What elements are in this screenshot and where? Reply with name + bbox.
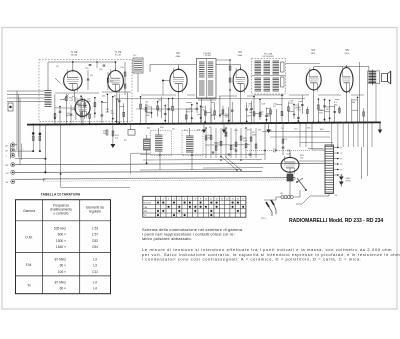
svg-text:C52: C52 <box>92 239 98 243</box>
svg-text:15K: 15K <box>252 134 256 136</box>
svg-text:60 »: 60 » <box>60 287 67 291</box>
svg-text:L4: L4 <box>93 287 97 291</box>
svg-text:1640 »: 1640 » <box>56 245 66 249</box>
svg-text:V2: V2 <box>340 153 342 155</box>
svg-text:87 MHz: 87 MHz <box>55 258 67 262</box>
svg-text:1M: 1M <box>258 130 261 132</box>
svg-text:6BA6: 6BA6 <box>238 54 243 57</box>
svg-text:T42: T42 <box>133 55 136 57</box>
svg-text:C54: C54 <box>92 245 98 249</box>
svg-text:1M: 1M <box>224 135 227 137</box>
svg-text:90 »: 90 » <box>60 264 67 268</box>
svg-text:L3: L3 <box>93 264 97 268</box>
svg-text:½ V1: ½ V1 <box>115 50 122 54</box>
svg-text:1M: 1M <box>103 133 106 135</box>
svg-text:FTR 60n: FTR 60n <box>214 143 221 145</box>
svg-text:O.M.: O.M. <box>25 236 32 240</box>
svg-text:10n: 10n <box>111 113 114 115</box>
svg-text:C11: C11 <box>92 270 98 274</box>
svg-text:RADIOMARELLI Modd. RD 233 -: RADIOMARELLI Modd. RD 233 - RD 234 <box>289 218 383 224</box>
svg-text:OM: OM <box>6 173 9 175</box>
svg-text:535 kHz: 535 kHz <box>54 227 66 231</box>
svg-text:L 57: L 57 <box>92 233 98 237</box>
svg-text:V4: V4 <box>311 48 315 52</box>
svg-text:Tv: Tv <box>27 284 31 288</box>
svg-text:o controllo: o controllo <box>53 212 68 216</box>
svg-text:FM: FM <box>144 211 147 213</box>
svg-text:lativo pulsante abbassato.: lativo pulsante abbassato. <box>142 236 192 241</box>
svg-text:TABELLA DI TARATURA: TABELLA DI TARATURA <box>41 192 81 196</box>
svg-text:L 53: L 53 <box>92 227 98 231</box>
svg-text:V5: V5 <box>340 170 342 172</box>
svg-text:DISCRIMINAT.: DISCRIMINAT. <box>262 55 274 58</box>
svg-text:V3: V3 <box>340 159 342 161</box>
svg-text:TERM.: TERM. <box>346 180 352 182</box>
svg-text:I° MF AM: I° MF AM <box>203 54 211 57</box>
svg-text:6CA4: 6CA4 <box>287 153 292 156</box>
svg-text:V4: V4 <box>340 164 342 166</box>
svg-text:i condensatori sono così contr: i condensatori sono così contrassegnati:… <box>142 256 362 261</box>
svg-text:600 »: 600 » <box>58 233 66 237</box>
svg-text:6BA6: 6BA6 <box>176 55 181 58</box>
svg-text:V1: V1 <box>340 148 342 150</box>
svg-text:L4: L4 <box>93 281 97 285</box>
svg-text:6AQ5: 6AQ5 <box>345 52 350 55</box>
svg-text:Gamma: Gamma <box>23 209 35 213</box>
svg-text:L3: L3 <box>93 258 97 262</box>
svg-text:220 V: 220 V <box>261 218 267 220</box>
svg-text:6AV6: 6AV6 <box>311 52 315 55</box>
svg-text:L66: L66 <box>280 193 283 195</box>
svg-text:F.M.: F.M. <box>26 263 32 267</box>
svg-text:regolare: regolare <box>89 210 101 214</box>
svg-text:V3: V3 <box>238 50 242 54</box>
svg-text:1500 »: 1500 » <box>56 239 66 243</box>
svg-text:6BQ7A: 6BQ7A <box>71 54 78 57</box>
svg-text:V5: V5 <box>345 48 349 52</box>
svg-text:FM: FM <box>6 165 9 167</box>
svg-text:OM: OM <box>144 207 148 209</box>
svg-text:VOLT.E: VOLT.E <box>144 203 152 205</box>
svg-text:½ V2: ½ V2 <box>71 50 78 54</box>
svg-text:V2: V2 <box>176 51 180 55</box>
svg-text:ECC85: ECC85 <box>115 55 121 57</box>
svg-text:100 »: 100 » <box>58 270 66 274</box>
svg-text:87 MHz: 87 MHz <box>55 281 67 285</box>
